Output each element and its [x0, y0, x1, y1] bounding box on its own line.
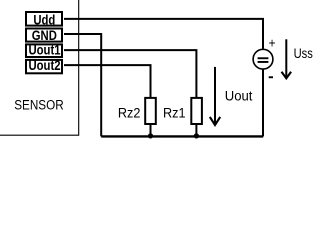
sensor box SENSOR outline	[0, 0, 79, 135]
svg-text:Uss: Uss	[294, 46, 313, 61]
label Rz2	[118, 105, 141, 121]
pin Udd	[26, 12, 62, 28]
node junction Rz2-rail	[148, 133, 153, 138]
wire Uout2 to Rz2	[64, 65, 151, 98]
label Uout	[225, 88, 253, 103]
svg-text:Rz2: Rz2	[118, 105, 141, 121]
svg-text:GND: GND	[32, 28, 57, 43]
svg-text:Udd: Udd	[33, 13, 55, 28]
wire Uout1 to Rz1	[64, 50, 196, 98]
arrow Uss	[282, 39, 292, 78]
voltage source Uss circle	[253, 49, 273, 69]
resistor Rz1	[191, 98, 202, 136]
label Rz1	[163, 105, 186, 121]
pin GND	[26, 28, 62, 43]
svg-text:Uout2: Uout2	[28, 58, 60, 73]
label plus	[269, 34, 276, 50]
label Uss	[294, 46, 313, 61]
resistor Rz2	[145, 98, 156, 136]
svg-text:Uout: Uout	[225, 88, 253, 103]
wire Udd to source plus	[64, 19, 263, 49]
svg-text:Rz1: Rz1	[163, 105, 186, 121]
ground rail	[101, 135, 263, 137]
label SENSOR	[14, 96, 64, 112]
pin Uout1	[26, 43, 62, 58]
node junction Rz1-rail	[194, 133, 199, 138]
svg-text:SENSOR: SENSOR	[14, 96, 64, 112]
wire source minus to rail	[262, 69, 264, 136]
svg-text:+: +	[269, 34, 276, 50]
pin Uout2	[26, 58, 62, 73]
label minus	[269, 76, 273, 78]
arrow Uout	[210, 67, 220, 125]
wire GND to rail	[64, 34, 101, 136]
svg-text:Uout1: Uout1	[28, 43, 60, 58]
